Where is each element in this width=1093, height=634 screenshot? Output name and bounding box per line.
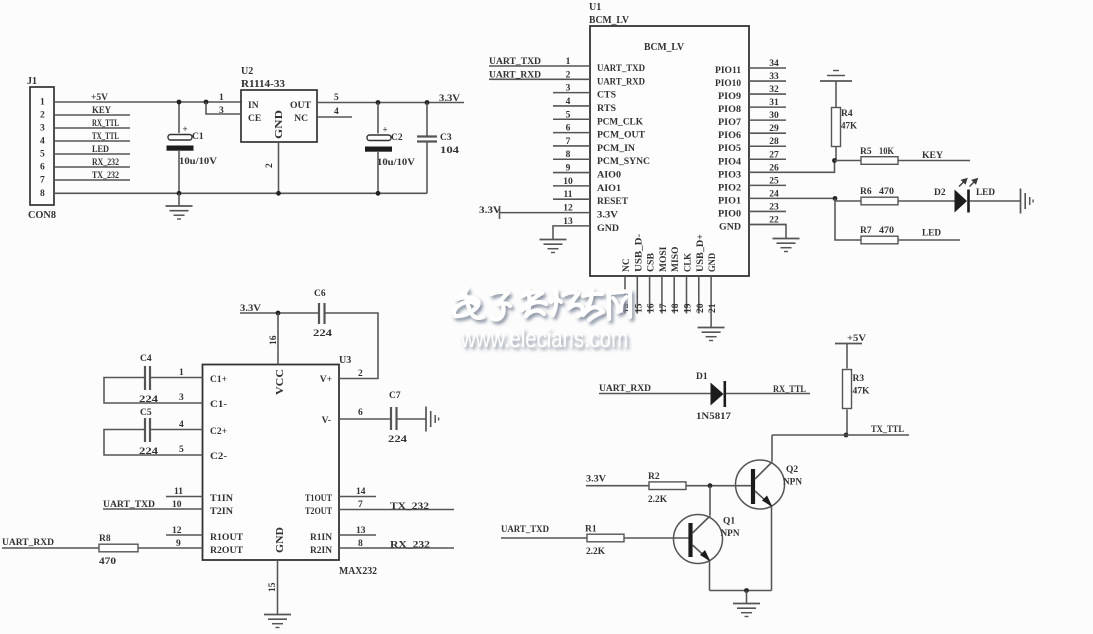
wire node to R6 [835, 200, 861, 202]
node +5V/C1 junction [177, 100, 182, 105]
node R3/TX_TTL junction [844, 433, 849, 438]
svg-text:PIO4: PIO4 [718, 157, 741, 167]
wire Q1 collector up [709, 486, 711, 515]
wire R2 to Q2 base [686, 485, 752, 487]
U1 pin 5 stub [553, 118, 590, 120]
svg-text:16: 16 [269, 335, 279, 345]
svg-text:4: 4 [566, 97, 571, 107]
svg-text:D2: D2 [934, 188, 946, 198]
svg-text:19: 19 [684, 303, 694, 313]
svg-text:7: 7 [358, 500, 363, 510]
svg-text:UART_TXD: UART_TXD [489, 57, 541, 67]
svg-text:AIO0: AIO0 [597, 171, 621, 181]
capacitor C3 plates [417, 135, 437, 137]
U1 pin 10 stub [553, 185, 590, 187]
svg-text:2.2K: 2.2K [648, 495, 668, 505]
svg-text:20: 20 [696, 303, 706, 313]
svg-text:TX_TTL: TX_TTL [871, 425, 904, 435]
resistor R1 body [587, 534, 624, 542]
svg-text:R5: R5 [860, 147, 872, 157]
svg-text:UART_TXD: UART_TXD [501, 525, 549, 535]
svg-text:R4: R4 [841, 109, 853, 119]
svg-text:PIO1: PIO1 [718, 196, 741, 206]
svg-text:Q1: Q1 [723, 517, 735, 527]
svg-text:PIO9: PIO9 [718, 92, 741, 102]
svg-text:C2-: C2- [210, 452, 227, 462]
svg-text:UART_RXD: UART_RXD [2, 538, 54, 548]
U1 pin 4 stub [553, 105, 590, 107]
node +5V/CE branch junction [204, 100, 209, 105]
svg-text:T2OUT: T2OUT [305, 507, 333, 517]
U1 pin 6 stub [553, 132, 590, 134]
wire UART_TXD to U1 pin1 [489, 65, 590, 67]
wire +5V from J1 pin1 to U2 IN [54, 101, 241, 103]
svg-text:5: 5 [566, 110, 571, 120]
svg-text:3.3V: 3.3V [586, 475, 606, 485]
resistor R4 body [832, 108, 841, 147]
power rail symbol above R4 [820, 80, 852, 82]
net tick 3.3V [499, 206, 501, 219]
svg-text:OUT: OUT [290, 101, 312, 111]
wire J1 pin 4 stub (TX_TTL) [54, 140, 130, 142]
U1 pin 30 stub [749, 119, 786, 121]
svg-text:CON8: CON8 [28, 210, 56, 221]
U1 pin 9 stub [553, 172, 590, 174]
U1 bottom pin 14 stub [624, 276, 626, 314]
wire emitter rail [710, 590, 772, 592]
wire U3 GND pin15 [277, 560, 279, 615]
capacitor C6 plates [318, 303, 320, 324]
svg-text:CE: CE [248, 114, 261, 124]
svg-text:104: 104 [440, 146, 459, 156]
svg-text:CTS: CTS [597, 91, 616, 101]
wire 3.3V to C6 [240, 312, 319, 314]
svg-text:470: 470 [879, 226, 894, 236]
wire U1 pin24 to R6/R7 node [749, 197, 835, 199]
U1 pin 34 stub [749, 67, 786, 69]
svg-text:+: + [183, 124, 188, 134]
svg-text:PIO3: PIO3 [718, 170, 741, 180]
svg-text:14: 14 [356, 487, 366, 497]
U1 pin 27 stub [749, 158, 786, 160]
svg-text:R1114-33: R1114-33 [241, 79, 285, 90]
svg-text:USB_D+: USB_D+ [696, 234, 706, 272]
wire UART_TXD to U3 pin10 [103, 508, 203, 510]
ground symbol below Q1/Q2 [733, 603, 760, 605]
svg-text:4: 4 [40, 137, 45, 147]
U3 pin 13 stub [339, 534, 376, 536]
svg-text:8: 8 [40, 189, 45, 199]
svg-text:PIO6: PIO6 [718, 131, 741, 141]
IC U3 box [203, 365, 340, 561]
node 3.3V/VCC junction [276, 311, 281, 316]
svg-text:TX_232: TX_232 [390, 502, 429, 512]
wire R3 to TX_TTL node [846, 410, 848, 436]
regulator U2 box [241, 90, 317, 142]
svg-text:10u/10V: 10u/10V [179, 157, 217, 167]
capacitor C1 bottom plate [167, 146, 194, 151]
svg-text:UART_TXD: UART_TXD [597, 64, 645, 74]
svg-text:USB_D-: USB_D- [634, 234, 644, 272]
wire J1 pin 2 stub (KEY) [54, 114, 130, 116]
U1 pin 25 stub [749, 184, 786, 186]
U1 bottom pin 21 stub [710, 276, 712, 328]
transistor Q1 emitter diagonal [693, 545, 710, 561]
U1 bottom pin 19 stub [686, 276, 688, 314]
wire Q1 emitter down [709, 561, 711, 591]
wire +5V bar to R3 [846, 344, 848, 369]
svg-text:9: 9 [566, 164, 571, 174]
svg-text:C1: C1 [192, 132, 204, 142]
rotated ground symbol right of D2 [1020, 189, 1022, 214]
svg-text:J1: J1 [27, 76, 37, 87]
wire UART_RXD to R8 [2, 547, 99, 549]
wire V- pin6 to C7 [339, 418, 390, 420]
U1 pin 29 stub [749, 132, 786, 134]
svg-text:MOSI: MOSI [659, 246, 669, 272]
svg-text:15: 15 [268, 582, 278, 592]
svg-text:1: 1 [219, 93, 224, 103]
U1 pin 11 stub [553, 198, 590, 200]
transistor Q2 emitter diagonal [755, 491, 772, 506]
svg-text:PIO7: PIO7 [718, 118, 741, 128]
svg-text:UART_TXD: UART_TXD [103, 500, 155, 510]
svg-text:PCM_IN: PCM_IN [597, 144, 635, 154]
svg-text:MISO: MISO [671, 247, 681, 272]
svg-text:PIO0: PIO0 [718, 209, 741, 219]
wire CE branch [206, 102, 241, 114]
wire node to R5 [835, 160, 862, 162]
svg-text:1N5817: 1N5817 [696, 412, 731, 422]
U1 bottom pin 15 stub [636, 276, 638, 314]
svg-text:PCM_SYNC: PCM_SYNC [597, 157, 650, 167]
svg-text:7: 7 [40, 176, 45, 186]
svg-text:16: 16 [647, 303, 657, 313]
svg-text:VCC: VCC [275, 369, 286, 395]
svg-text:1: 1 [179, 368, 184, 378]
svg-text:RX_232: RX_232 [92, 158, 119, 168]
wire J1 pin 3 stub (RX_TTL) [54, 127, 130, 129]
svg-text:224: 224 [313, 329, 332, 339]
resistor R2 body [649, 482, 686, 490]
transistor Q1 base bar [688, 523, 692, 557]
resistor R6 body [861, 197, 898, 205]
svg-text:LED: LED [92, 145, 109, 155]
svg-text:C4: C4 [140, 354, 152, 364]
svg-text:47K: 47K [841, 122, 858, 132]
svg-text:18: 18 [671, 303, 681, 313]
svg-text:6: 6 [566, 124, 571, 134]
U1 bottom pin 20 stub [698, 276, 700, 314]
capacitor C3 lead top [426, 103, 428, 136]
capacitor C2 top plate [367, 135, 391, 141]
svg-text:KEY: KEY [92, 106, 111, 116]
svg-text:KEY: KEY [922, 151, 943, 161]
svg-text:Q2: Q2 [786, 465, 798, 475]
wire R7 to LED label [898, 239, 960, 241]
wire D2 to ground [970, 200, 1021, 202]
U1 pin 32 stub [749, 93, 786, 95]
svg-text:4: 4 [334, 107, 339, 117]
wire U2 NC stub [317, 116, 352, 118]
wire J1 pin 7 stub (TX_232) [54, 179, 130, 181]
wire R8 to U3 pin9 [138, 547, 203, 549]
node R4/R5/pin26 junction [832, 158, 837, 163]
svg-text:C2: C2 [391, 133, 403, 143]
wire U1 pin26 to R4/R5 node [749, 161, 835, 173]
transistor Q1 circle [674, 515, 723, 564]
svg-text:BCM_LV: BCM_LV [589, 15, 630, 26]
svg-text:3.3V: 3.3V [597, 211, 618, 221]
wire C4 loop to U3 pin3 [104, 378, 203, 404]
svg-text:C1-: C1- [210, 400, 227, 410]
svg-text:R7: R7 [860, 226, 872, 236]
capacitor C1 top plate [168, 135, 192, 141]
resistor R8 body [99, 544, 138, 552]
svg-text:NPN: NPN [721, 529, 740, 539]
wire 3.3V to R2 [586, 485, 650, 487]
svg-text:U1: U1 [589, 2, 601, 13]
resistor R7 body [861, 236, 898, 244]
resistor R5 body [861, 157, 898, 165]
wire D1 to RX_TTL [726, 393, 810, 395]
svg-text:GND: GND [597, 224, 619, 234]
svg-text:C7: C7 [389, 391, 401, 401]
svg-text:PIO8: PIO8 [718, 105, 741, 115]
svg-text:GND: GND [274, 109, 285, 139]
svg-text:3.3V: 3.3V [479, 206, 501, 216]
svg-text:21: 21 [708, 303, 718, 313]
node 3.3V/C3 junction [425, 100, 430, 105]
transistor Q2 collector diagonal [755, 462, 773, 480]
U1 pin 3 stub [553, 92, 590, 94]
wire TX_TTL row [772, 434, 909, 436]
svg-text:6: 6 [40, 163, 45, 173]
capacitor C2 lead bottom [377, 152, 379, 193]
U1 pin 8 stub [553, 158, 590, 160]
svg-text:UART_RXD: UART_RXD [599, 384, 651, 394]
watermark chinese script 电子发烧友网 [454, 289, 630, 320]
wire UART_RXD to D1 [599, 393, 711, 395]
svg-text:T1OUT: T1OUT [305, 494, 333, 504]
svg-text:1: 1 [40, 98, 45, 108]
svg-text:PIO5: PIO5 [718, 144, 741, 154]
wire node down to R7 row [835, 198, 861, 240]
U1 bottom pin 16 stub [649, 276, 651, 314]
svg-text:V-: V- [322, 416, 331, 426]
transistor Q1 collector diagonal [693, 516, 711, 534]
U1 pin 28 stub [749, 145, 786, 147]
svg-text:RX_TTL: RX_TTL [92, 119, 119, 129]
wire Q2 collector up [771, 435, 773, 461]
ground symbol below U3 [264, 614, 291, 616]
svg-text:C6: C6 [314, 289, 326, 299]
U3 pin 14 stub [339, 496, 376, 498]
wire J1 pin 5 stub (LED) [54, 153, 130, 155]
U3 pin 11 stub [166, 496, 203, 498]
capacitor C3 lead bottom [426, 142, 428, 193]
svg-text:R1: R1 [585, 525, 597, 535]
U3 pin 12 stub [166, 534, 203, 536]
svg-text:RX_TTL: RX_TTL [773, 385, 806, 395]
node U2 GND/rail junction [276, 191, 281, 196]
svg-text:2: 2 [358, 369, 363, 379]
svg-text:D1: D1 [696, 372, 708, 382]
wire U1 pin22 GND down [749, 224, 786, 238]
svg-text:T2IN: T2IN [210, 507, 233, 517]
svg-text:R2IN: R2IN [310, 546, 332, 556]
svg-text:3: 3 [40, 124, 45, 134]
wire UART_TXD to R1 [501, 537, 587, 539]
wire VCC pin16 [277, 313, 279, 365]
svg-text:17: 17 [659, 303, 669, 313]
svg-text:8: 8 [358, 539, 363, 549]
svg-text:3.3V: 3.3V [439, 94, 460, 104]
svg-text:3: 3 [566, 84, 571, 94]
U1 pin 31 stub [749, 106, 786, 108]
wire 3.3V to U1 pin12 [500, 212, 591, 214]
capacitor C1 lead top [178, 102, 180, 133]
wire U1 pin13 GND down [553, 226, 590, 240]
svg-text:13: 13 [356, 526, 366, 536]
svg-text:R6: R6 [860, 187, 872, 197]
wire R6 to D2 [898, 200, 955, 202]
wire power bar to R4 [835, 81, 837, 108]
svg-text:MAX232: MAX232 [339, 566, 377, 577]
svg-text:GND: GND [275, 527, 286, 553]
U1 pin 33 stub [749, 80, 786, 82]
wire R4 to node [835, 147, 837, 161]
diode D2 LED arrows [959, 179, 977, 187]
wire C6 to V+ pin2 [325, 313, 378, 379]
capacitor C4 plates [144, 366, 146, 390]
svg-text:5: 5 [40, 150, 45, 160]
svg-text:5: 5 [179, 445, 184, 455]
wire ground rail from J1 pin8 to C3 [54, 192, 427, 194]
svg-text:V+: V+ [320, 375, 332, 385]
resistor R3 body [843, 370, 852, 409]
svg-text:11: 11 [174, 487, 183, 497]
connector J1 box [30, 87, 54, 205]
svg-text:PCM_OUT: PCM_OUT [597, 131, 646, 141]
svg-text:PIO11: PIO11 [715, 66, 741, 76]
svg-text:R1IN: R1IN [310, 533, 332, 543]
svg-text:CLK: CLK [684, 252, 694, 272]
wire UART_RXD to U1 pin2 [489, 78, 590, 80]
svg-text:C2+: C2+ [210, 427, 227, 437]
node C1/ground-rail junction [177, 191, 182, 196]
svg-text:UART_RXD: UART_RXD [597, 77, 645, 87]
wire R1 to Q1 base [624, 537, 689, 539]
svg-text:8: 8 [566, 150, 571, 160]
svg-text:+: + [383, 125, 388, 135]
node C2/rail junction [376, 191, 381, 196]
diode D2 LED body [955, 190, 968, 213]
wire U3 pin7 T2OUT to TX_232 [339, 509, 454, 511]
svg-text:RESET: RESET [597, 197, 629, 207]
wire U3 pin4 to C5 [151, 429, 203, 431]
wire U3 pin8 R2IN to RX_232 [339, 547, 454, 549]
svg-text:12: 12 [172, 526, 182, 536]
ground symbol below U1 pin22 [773, 238, 800, 240]
svg-text:GND: GND [708, 253, 718, 272]
svg-text:PIO10: PIO10 [715, 79, 741, 89]
svg-text:NC: NC [294, 114, 308, 124]
ground symbol below C1 [178, 193, 180, 206]
svg-text:2: 2 [265, 163, 275, 168]
svg-text:NC: NC [622, 258, 632, 272]
transistor Q2 circle [736, 460, 785, 509]
wire J1 pin 6 stub (RX_232) [54, 166, 130, 168]
svg-text:11: 11 [564, 190, 573, 200]
svg-text:470: 470 [879, 187, 894, 197]
svg-text:10K: 10K [879, 147, 895, 157]
svg-text:5: 5 [334, 93, 339, 103]
svg-text:10u/10V: 10u/10V [377, 158, 415, 168]
ground symbol below U1 pin13 [540, 239, 567, 241]
svg-text:PCM_CLK: PCM_CLK [597, 117, 644, 127]
svg-text:TX_TTL: TX_TTL [92, 132, 119, 142]
svg-text:GND: GND [719, 222, 741, 232]
svg-text:RX_232: RX_232 [390, 541, 430, 551]
svg-text:R8: R8 [99, 534, 111, 544]
U1 bottom pin 18 stub [673, 276, 675, 314]
node 3.3V/C2 junction [376, 100, 381, 105]
svg-text:47K: 47K [853, 387, 871, 397]
power bar +5V [835, 343, 862, 345]
wire U2 GND pin [278, 142, 280, 193]
svg-text:BCM_LV: BCM_LV [644, 42, 684, 53]
wire ground drop [746, 591, 748, 604]
svg-text:TX_232: TX_232 [92, 171, 119, 181]
U1 pin 7 stub [553, 145, 590, 147]
svg-text:10: 10 [563, 177, 573, 187]
svg-text:4: 4 [179, 420, 184, 430]
svg-text:6: 6 [358, 408, 363, 418]
svg-text:2.2K: 2.2K [586, 547, 606, 557]
svg-text:T1IN: T1IN [210, 494, 233, 504]
svg-text:3: 3 [219, 106, 224, 116]
svg-text:224: 224 [388, 435, 407, 445]
svg-text:10: 10 [172, 500, 182, 510]
capacitor C2 bottom plate [365, 147, 392, 152]
wire R5 to KEY [898, 160, 970, 162]
svg-text:LED: LED [976, 188, 995, 198]
svg-text:+5V: +5V [91, 93, 108, 103]
svg-text:7: 7 [566, 137, 571, 147]
node pin24/R6/R7 junction [833, 196, 838, 201]
svg-text:PIO2: PIO2 [718, 183, 741, 193]
svg-text:C3: C3 [440, 133, 452, 143]
node emitter rail/ground junction [744, 588, 749, 593]
node R2/Q1 collector junction [708, 483, 713, 488]
wire U3 pin1 to C4 [151, 377, 203, 379]
U1 pin 23 stub [749, 210, 786, 212]
ground symbol below U1 pin21 [698, 327, 725, 329]
svg-text:CSB: CSB [647, 252, 657, 272]
svg-text:3: 3 [179, 393, 184, 403]
svg-text:NPN: NPN [783, 478, 802, 488]
wire C5 loop to U3 pin5 [104, 430, 203, 456]
svg-text:R1OUT: R1OUT [210, 533, 244, 543]
svg-text:R2: R2 [648, 472, 660, 482]
svg-text:+5V: +5V [847, 334, 866, 344]
capacitor C7 plates [390, 407, 392, 430]
svg-text:RTS: RTS [597, 104, 616, 114]
svg-text:IN: IN [248, 101, 259, 111]
svg-text:2: 2 [40, 111, 45, 121]
svg-text:R3: R3 [853, 374, 865, 384]
